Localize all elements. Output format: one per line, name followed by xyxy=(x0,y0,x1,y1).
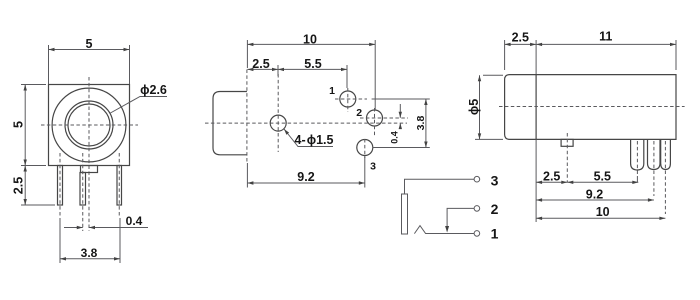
side view body outline xyxy=(505,75,676,140)
schematic sleeve contact xyxy=(402,194,408,234)
bottom view hidden body edge xyxy=(246,70,248,163)
side view pin A xyxy=(631,139,644,182)
dimension 5 left height xyxy=(12,85,47,166)
svg-text:10: 10 xyxy=(596,205,610,219)
side view pin B xyxy=(648,139,661,196)
dimension 9.2 bottom view xyxy=(247,156,364,188)
svg-text:0.4: 0.4 xyxy=(126,214,143,228)
svg-text:2.5: 2.5 xyxy=(512,30,529,44)
front view center pin tab xyxy=(81,166,98,173)
svg-text:1: 1 xyxy=(329,85,335,97)
side view centerline xyxy=(499,106,685,108)
dimension phi 5 side view xyxy=(467,75,503,139)
svg-text:2.5: 2.5 xyxy=(12,177,26,194)
svg-text:3.8: 3.8 xyxy=(415,116,427,131)
svg-text:0.4: 0.4 xyxy=(390,131,400,144)
front view body square xyxy=(49,85,130,166)
dimension 10 side view xyxy=(536,205,665,220)
schematic terminal 1 xyxy=(474,231,480,237)
side view pin C xyxy=(661,139,671,214)
label 3 bottom view xyxy=(370,161,376,173)
side view barrel face line xyxy=(535,75,537,140)
front view center pin xyxy=(80,153,86,231)
svg-text:1: 1 xyxy=(491,225,499,241)
bottom view hole pin 3 xyxy=(357,139,373,158)
front view outer circle xyxy=(52,88,126,162)
label 2 bottom view xyxy=(356,107,362,119)
svg-text:9.2: 9.2 xyxy=(586,188,603,202)
svg-text:10: 10 xyxy=(303,33,317,47)
svg-text:3: 3 xyxy=(370,161,376,173)
bottom view main centerline xyxy=(205,122,407,124)
label 4-phi1.5 with leader xyxy=(284,129,333,147)
schematic label 3 xyxy=(491,173,499,189)
svg-text:3.8: 3.8 xyxy=(81,246,98,260)
svg-text:5: 5 xyxy=(86,37,93,51)
schematic label 1 xyxy=(491,225,499,241)
schematic label 2 xyxy=(491,201,499,217)
front view hole circle (phi 2.6) xyxy=(68,104,110,146)
dimension 2.5 pin length left xyxy=(12,166,56,206)
svg-text:9.2: 9.2 xyxy=(297,170,314,184)
schematic terminal 2 xyxy=(474,206,480,212)
svg-text:2: 2 xyxy=(356,107,362,119)
svg-text:ϕ2.6: ϕ2.6 xyxy=(140,83,167,97)
side view mounting tab xyxy=(561,133,573,182)
schematic wire to terminal 3 xyxy=(405,179,475,194)
front view chamfer circle xyxy=(65,101,113,149)
bottom view hole pin 1 xyxy=(335,88,367,112)
svg-text:2: 2 xyxy=(491,201,499,217)
bottom view barrel bump xyxy=(213,92,247,155)
front view vertical centerline xyxy=(88,77,90,231)
svg-text:3: 3 xyxy=(491,173,499,189)
schematic terminal 3 xyxy=(474,176,480,182)
dimension 9.2 side view xyxy=(536,188,654,202)
dimension 3.8 vertical bottom view xyxy=(372,99,430,148)
dimension 0.4 vertical bottom view xyxy=(390,104,402,144)
dimension 3.8 pin span front view xyxy=(60,218,120,263)
bottom view hole 4-phi1.5 xyxy=(270,74,286,152)
dimension 2.5 and 5.5 bottom view xyxy=(247,57,347,88)
svg-text:5.5: 5.5 xyxy=(304,57,321,71)
dimension 2.5 and 11 top side view xyxy=(505,30,676,75)
front view horizontal centerline xyxy=(41,124,138,126)
label phi 2.6 with leader xyxy=(110,83,168,114)
dimension 10 bottom view xyxy=(247,33,375,111)
svg-text:4- ϕ1.5: 4- ϕ1.5 xyxy=(295,133,334,147)
dimension 0.4 pin offset front view xyxy=(64,214,148,229)
svg-text:ϕ5: ϕ5 xyxy=(467,99,481,115)
schematic wire terminal 1 with spring contact xyxy=(414,226,474,234)
front view right pin xyxy=(117,153,122,216)
bottom view hole pin 2 xyxy=(360,108,408,137)
svg-text:5: 5 xyxy=(12,121,26,128)
svg-text:2.5: 2.5 xyxy=(543,170,560,184)
label 1 bottom view xyxy=(329,85,335,97)
svg-text:5.5: 5.5 xyxy=(594,170,611,184)
front view left pin xyxy=(58,153,63,216)
schematic wire terminal 2 with arrow xyxy=(445,208,474,232)
svg-text:2.5: 2.5 xyxy=(252,57,269,71)
dimension 2.5 and 5.5 bottom side view xyxy=(536,139,638,222)
svg-text:11: 11 xyxy=(599,30,612,44)
dimension 5 top width xyxy=(49,37,130,84)
